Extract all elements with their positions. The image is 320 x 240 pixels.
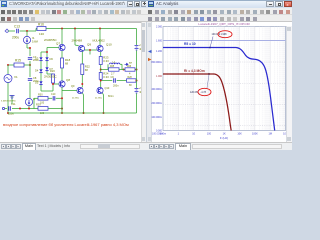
- resistor R24 0.33: [99, 73, 102, 80]
- wire ladder bottom: [40, 85, 42, 91]
- transistor Q8 2N3055C: [59, 81, 65, 87]
- svg-text:D4: D4: [35, 69, 39, 73]
- svg-text:68: 68: [85, 68, 89, 72]
- wire input to C13: [8, 30, 15, 32]
- svg-text:100.000m: 100.000m: [151, 116, 162, 119]
- wire diode ladder top: [41, 51, 47, 53]
- wire I1 to main vertical: [26, 44, 28, 48]
- ammeter arrow: [125, 63, 129, 65]
- svg-text:1M: 1M: [268, 133, 271, 136]
- capacitor C10: [53, 96, 55, 100]
- svg-text:1.200: 1.200: [156, 50, 163, 53]
- diode D7: [46, 61, 48, 67]
- capacitor C7 200u: [28, 58, 32, 60]
- svg-text:68: 68: [129, 85, 132, 87]
- resistor R16 130: [36, 28, 37, 30]
- diode D5: [40, 73, 42, 81]
- svg-text:-4.78: -4.78: [201, 91, 207, 94]
- capacitor C13 200u: [17, 29, 19, 33]
- svg-text:I1: I1: [32, 36, 35, 40]
- wire terminal to C11: [5, 108, 7, 110]
- wire R18 to Q8: [61, 68, 63, 81]
- svg-text:1: 1: [178, 133, 180, 136]
- gutter arrows: [148, 50, 152, 53]
- right window: AC Analysis plot: [146, 0, 292, 150]
- wire to V1: [7, 65, 9, 74]
- resistor R22 68: [81, 64, 84, 75]
- svg-text:Q7: Q7: [56, 42, 60, 46]
- node C junction: [123, 69, 125, 71]
- wire right rail top: [136, 29, 138, 46]
- svg-text:10K: 10K: [237, 133, 242, 136]
- diode D4: [40, 61, 42, 69]
- svg-text:Q8: Q8: [66, 78, 70, 82]
- svg-text:R16: R16: [38, 23, 44, 27]
- svg-text:2N6488: 2N6488: [72, 39, 83, 43]
- wire V1 to bottom rail: [7, 83, 9, 113]
- wire right rail bottom: [136, 94, 138, 114]
- svg-text:0.33: 0.33: [103, 75, 109, 79]
- svg-text:1.600: 1.600: [156, 40, 163, 43]
- svg-text:V1: V1: [14, 75, 18, 79]
- capacitor C11 220u: [9, 106, 11, 110]
- svg-text:R26: R26: [127, 66, 132, 68]
- wire C11 to I2 node: [12, 108, 48, 110]
- svg-text:400.000m: 400.000m: [151, 88, 162, 91]
- svg-text:100.019: 100.019: [212, 33, 221, 36]
- wire bottom rail: [8, 112, 137, 114]
- wire jog input rail: [35, 29, 37, 32]
- svg-text:C13: C13: [14, 25, 20, 29]
- resistor R26 4: [125, 68, 135, 71]
- node rail junctions: [61, 28, 63, 30]
- svg-text:40: 40: [139, 91, 141, 94]
- svg-text:100K: 100K: [252, 133, 258, 136]
- capacitor C8 200u: [28, 79, 32, 81]
- svg-text:F (Hz): F (Hz): [220, 136, 228, 140]
- wire Q11 base: [62, 90, 77, 92]
- battery V3 40: [135, 89, 139, 94]
- current source I1: [26, 31, 28, 37]
- transistor Q7 2N3055C: [61, 29, 63, 45]
- resistor R25 2.7: [109, 68, 120, 71]
- svg-text:4: 4: [129, 72, 131, 75]
- resistor R29 100: [38, 107, 48, 111]
- svg-text:1.000: 1.000: [156, 75, 163, 78]
- transistor Q12 output: [100, 79, 102, 87]
- svg-text:+V2: +V2: [139, 44, 141, 47]
- node OUT junction: [100, 65, 102, 73]
- svg-text:Q10: Q10: [105, 87, 110, 90]
- svg-text:200.000m: 200.000m: [151, 102, 162, 105]
- svg-text:+V3: +V3: [139, 87, 141, 90]
- svg-text:R30: R30: [38, 94, 43, 97]
- wire R22 to Q11: [81, 75, 83, 88]
- svg-text:Ri = 4,3 MOm: Ri = 4,3 MOm: [184, 69, 205, 73]
- wire Q7 base: [47, 47, 59, 49]
- wire C7-C8: [29, 61, 31, 77]
- svg-text:R25: R25: [110, 66, 115, 68]
- svg-text:2N3055C: 2N3055C: [44, 75, 58, 79]
- svg-text:2.000: 2.000: [156, 26, 163, 29]
- svg-text:10: 10: [192, 133, 195, 136]
- svg-text:C10: C10: [51, 93, 56, 96]
- resistor R23 0.33: [99, 57, 102, 65]
- wire gnd stub: [11, 99, 13, 104]
- wire R28 to right rail: [135, 80, 138, 82]
- svg-text:40: 40: [139, 48, 141, 51]
- svg-text:(0.1W): (0.1W): [95, 98, 102, 100]
- svg-text:R15: R15: [15, 59, 21, 63]
- resistor R28 68: [127, 79, 137, 82]
- svg-text:входное сопротивление бб усили: входное сопротивление бб усилителя Lucar…: [3, 122, 129, 127]
- node IN: input terminal: [6, 30, 9, 33]
- svg-text:68: 68: [65, 62, 69, 66]
- inductor L1: [107, 64, 109, 69]
- wire Q11 emitter to bottom rail: [83, 93, 84, 95]
- svg-text:5.6MOm/5MHz: 5.6MOm/5MHz: [1, 101, 16, 103]
- diode D6: [46, 55, 48, 57]
- svg-text:D5: D5: [35, 81, 39, 85]
- svg-text:(0.1W): (0.1W): [72, 98, 79, 100]
- wire C9 to R28: [117, 80, 127, 82]
- wire node E vertical: [61, 98, 63, 110]
- svg-text:D3: D3: [35, 57, 39, 61]
- transistor Q11 output: [77, 87, 83, 93]
- wire top supply rail: [46, 28, 137, 30]
- resistor R20: [46, 71, 48, 74]
- resistor R18 68: [61, 51, 63, 58]
- svg-text:200n: 200n: [113, 85, 119, 88]
- svg-text:Q9: Q9: [87, 43, 91, 47]
- source V1 sine: [4, 75, 12, 83]
- svg-text:D6: D6: [50, 57, 54, 61]
- node A junction: [26, 30, 28, 32]
- svg-text:R20: R20: [50, 69, 55, 73]
- wire to battery V3: [136, 81, 138, 89]
- svg-text:220u: 220u: [8, 112, 14, 116]
- wire R26 to right rail: [135, 69, 137, 71]
- wire C8 down to I2: [29, 82, 31, 98]
- svg-text:800.000m: 800.000m: [151, 61, 162, 64]
- wire driver bases: [84, 49, 97, 51]
- svg-text:AR: AR: [129, 61, 132, 64]
- current source I2: [25, 98, 32, 105]
- svg-text:I2: I2: [33, 97, 36, 101]
- wire Zobel row: [101, 80, 113, 82]
- wire Q9 emitter: [81, 52, 83, 64]
- battery V2 40: [135, 46, 139, 51]
- svg-text:5.6M: 5.6M: [32, 40, 38, 44]
- blue gain trace R5=10: [163, 48, 275, 131]
- svg-text:2.7: 2.7: [111, 72, 115, 75]
- svg-text:MJL4302: MJL4302: [93, 39, 106, 43]
- cursor line: [163, 40, 286, 42]
- wire C13 to node A: [20, 30, 37, 32]
- left window: Micro-Cap schematic editor: [0, 0, 146, 150]
- red ellipse annotation mid: [198, 88, 211, 95]
- node B junction: [29, 64, 31, 66]
- transistor Q9 2N6488: [74, 29, 76, 46]
- dark red input-impedance trace Ri: [163, 74, 231, 131]
- svg-text:R28: R28: [128, 77, 133, 79]
- svg-text:Q10: Q10: [106, 43, 112, 47]
- capacitor C9 200n: [114, 78, 116, 82]
- svg-text:100.000m: 100.000m: [152, 133, 163, 136]
- svg-text:R29: R29: [36, 104, 41, 107]
- svg-text:130: 130: [39, 32, 44, 36]
- svg-text:200u: 200u: [12, 36, 19, 40]
- resistor R15: [8, 64, 14, 66]
- wire I2 to bottom net: [28, 106, 30, 109]
- red ellipse annotation top: [218, 31, 232, 38]
- svg-text:100: 100: [207, 133, 212, 136]
- transistor Q10 MJL4302: [99, 29, 101, 46]
- resistor R30 100: [38, 97, 48, 101]
- wire battery V2 to out nodes: [136, 51, 138, 81]
- svg-text:100: 100: [40, 102, 45, 105]
- wire Q8 base: [53, 83, 59, 85]
- svg-text:R5 = 10: R5 = 10: [184, 42, 196, 46]
- ground GND1: [11, 96, 13, 100]
- wire Q10 emitter: [100, 52, 102, 57]
- svg-text:8Om: 8Om: [108, 94, 114, 98]
- wire Q12 emitter to bottom rail: [103, 93, 104, 95]
- wire OUT node to R25: [101, 69, 108, 71]
- wire Q8 emitter down: [61, 87, 63, 110]
- svg-text:Q9: Q9: [71, 85, 75, 88]
- wire R29 to node E: [48, 108, 62, 110]
- svg-text:Lucarelli-1967_QRT_OPS_IT-OP.C: Lucarelli-1967_QRT_OPS_IT-OP.CIR: [198, 22, 250, 26]
- diode D3: [40, 55, 42, 57]
- svg-text:0.33: 0.33: [103, 59, 109, 63]
- node D terminal: [2, 107, 4, 109]
- wire R30 left stub: [34, 97, 38, 99]
- svg-text:1.998: 1.998: [221, 33, 228, 36]
- wire node E to bottom rail: [61, 110, 63, 113]
